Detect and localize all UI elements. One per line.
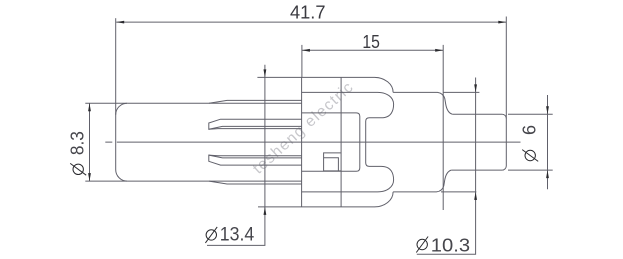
barrel bottom edge [127,180,301,182]
shoulder arc bottom [375,192,394,207]
Ø13.4 leader [207,65,265,246]
inner contour B [302,113,360,171]
svg-text:41.7: 41.7 [290,3,326,23]
arrow Ø6 top [546,106,549,114]
Ø10.3 bottom edge [393,191,436,193]
spline wedge lower back line [209,154,302,157]
svg-text:8.3: 8.3 [68,131,88,155]
Ø10.3 bottom extension [441,191,476,193]
arrow Ø13.4 top [264,69,267,77]
arrow 41.7 right [498,21,506,24]
body left edge [301,77,303,207]
svg-text:15: 15 [362,32,380,52]
dim Ø8.3 top extension [85,102,127,104]
dim 15 right extension [442,45,444,210]
Ø6 bottom extension [508,169,553,171]
spline wedge lower [209,155,302,165]
Ø10.3 top extension [443,91,479,93]
arrow 15 right [435,49,443,52]
step top S-curve [438,92,453,114]
dim Ø8.3 bottom extension [85,180,127,182]
spline sliver top [209,100,302,103]
arrow Ø6 bottom [546,170,549,178]
inner nose contour [302,92,394,191]
spline wedge upper [209,119,302,129]
small rectangle lug [324,153,342,171]
shoulder arc top [375,77,394,92]
label Ø13.4 [205,224,254,245]
barrel top edge [127,102,301,104]
Ø6 dim line [547,95,549,189]
body Ø13.4 top edge with extension [257,76,374,78]
arrow 41.7 left [116,21,124,24]
body Ø13.4 bottom edge with extension [258,206,375,208]
arrow 15 left [302,49,310,52]
svg-text:13.4: 13.4 [220,224,255,245]
label Ø8.3 vertical [68,131,88,175]
arrow Ø10.3 bottom [474,192,477,200]
dim 41.7 left extension [115,18,117,115]
arrow Ø8.3 bottom [88,173,91,181]
centerline [105,141,520,143]
dim Ø8.3 line [89,103,91,181]
svg-text:10.3: 10.3 [431,235,470,256]
Ø6 bottom edge [451,169,502,171]
label Ø6 vertical [520,125,540,161]
svg-text:6: 6 [520,125,540,135]
Ø6 top extension [508,113,553,115]
barrel Ø8.3 left cap [116,103,128,181]
arrow Ø13.4 bottom [264,207,267,215]
step bottom S-curve [437,170,452,192]
arrow Ø8.3 top [88,103,91,111]
spline wedge upper back line [209,128,302,131]
Ø10.3 top edge [393,91,437,93]
Ø10.3 leader [417,78,476,255]
dim 15 left extension [301,45,303,78]
arrow Ø10.3 top [474,84,477,92]
spline sliver bottom [209,181,302,184]
label Ø10.3 [416,235,470,256]
dim 15 line [302,49,443,51]
dim 41.7 line [116,21,506,23]
Ø6 top edge [452,113,502,115]
body inner vertical [340,77,342,207]
right end cap [502,114,506,170]
watermark text [250,78,358,177]
dim 41.7 right extension [505,17,507,119]
lug inner lines [324,158,339,171]
